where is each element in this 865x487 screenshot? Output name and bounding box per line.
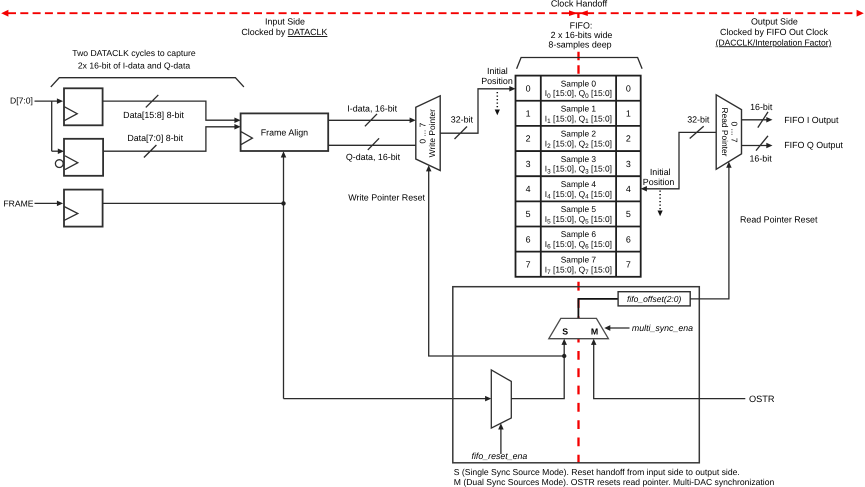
sync control box (453, 287, 700, 463)
S/M sync source mux (549, 318, 609, 338)
svg-text:FIFO I Output: FIFO I Output (784, 115, 839, 125)
junction FRAME node (281, 201, 285, 205)
slash 32-bit read bus (690, 126, 704, 138)
svg-text:I7 [15:0], Q7 [15:0]: I7 [15:0], Q7 [15:0] (545, 264, 612, 276)
svg-text:Data[15:8] 8-bit: Data[15:8] 8-bit (123, 110, 184, 120)
svg-text:fifo_reset_ena: fifo_reset_ena (472, 451, 528, 461)
svg-text:32-bit: 32-bit (687, 115, 710, 125)
pointer initial position read (dotted arrow) (659, 191, 661, 212)
svg-text:7: 7 (626, 259, 631, 269)
svg-text:6: 6 (626, 234, 631, 244)
svg-text:Clocked by DATACLK: Clocked by DATACLK (241, 27, 327, 37)
FIFO row 7 (526, 254, 631, 276)
svg-text:Initial: Initial (487, 66, 508, 76)
wire I-data to write pointer (328, 119, 411, 121)
svg-text:1: 1 (526, 109, 531, 119)
junction write-reset node (562, 354, 566, 358)
flip-flop FF2 (Data[7:0] capture, inverted clock) (64, 139, 103, 176)
FIFO row 6 (526, 229, 631, 251)
svg-text:6: 6 (526, 234, 531, 244)
svg-text:Sample 7: Sample 7 (561, 254, 597, 264)
svg-text:FIFO Q Output: FIFO Q Output (784, 140, 843, 150)
wire read initial position (645, 132, 716, 188)
wire write pointer reset (429, 170, 565, 357)
svg-text:OSTR: OSTR (749, 394, 775, 404)
write pointer mux (416, 96, 440, 171)
svg-text:2: 2 (526, 134, 531, 144)
wire FF2 to Frame Align (Data[7:0]) (103, 127, 236, 151)
svg-text:3: 3 (526, 159, 531, 169)
FIFO row 3 (526, 154, 631, 176)
svg-text:4: 4 (626, 184, 631, 194)
FIFO row 4 (526, 179, 631, 201)
brace over FIFO table (517, 58, 643, 69)
svg-text:S (Single Sync Source Mode). R: S (Single Sync Source Mode). Reset hando… (454, 467, 740, 477)
svg-text:Write Pointer: Write Pointer (427, 109, 437, 157)
svg-text:Data[7:0] 8-bit: Data[7:0] 8-bit (127, 133, 183, 143)
svg-text:16-bit: 16-bit (749, 153, 772, 163)
slash 32-bit write bus (455, 127, 468, 140)
wire FIFO Q output (742, 145, 769, 147)
wire multi_sync_ena (609, 327, 630, 329)
svg-text:Frame Align: Frame Align (261, 127, 308, 137)
svg-text:Sample 4: Sample 4 (561, 179, 597, 189)
wire FRAME to FF3 (35, 202, 60, 204)
frame-align U1 (241, 113, 329, 151)
svg-text:1: 1 (626, 109, 631, 119)
FIFO row 0 (526, 78, 631, 99)
flip-flop FF3 (FRAME capture) (64, 190, 103, 227)
wire S/M mux output to fifo_offset (578, 299, 618, 319)
handoff axis (red dashed vertical, upper segment) (577, 52, 579, 76)
flip-flop FF1 (Data[15:8] capture) (64, 88, 103, 125)
svg-text:fifo_offset(2:0): fifo_offset(2:0) (627, 294, 682, 304)
svg-text:5: 5 (526, 209, 531, 219)
svg-text:2x 16-bit of I-data and Q-data: 2x 16-bit of I-data and Q-data (78, 61, 190, 71)
wire D[7:0] to FF1 (35, 101, 61, 151)
svg-text:Write Pointer Reset: Write Pointer Reset (348, 193, 425, 203)
register fifo_offset(2:0) (618, 292, 690, 306)
FIFO table (516, 76, 641, 277)
wire read pointer reset (690, 166, 729, 299)
svg-text:D[7:0]: D[7:0] (10, 96, 33, 106)
svg-text:M (Dual Sync Sources Mode). OS: M (Dual Sync Sources Mode). OSTR resets … (454, 477, 775, 487)
svg-text:Sample 2: Sample 2 (561, 129, 597, 139)
svg-text:Clock Handoff: Clock Handoff (551, 0, 608, 9)
wire reset mux output to S input (511, 344, 564, 399)
svg-text:Sample 6: Sample 6 (561, 229, 597, 239)
svg-text:0 ... 7: 0 ... 7 (418, 122, 428, 143)
svg-text:Initial: Initial (650, 167, 671, 177)
svg-text:(DACCLK/Interpolation Factor): (DACCLK/Interpolation Factor) (716, 37, 832, 47)
svg-text:S: S (562, 327, 568, 337)
svg-text:Two DATACLK cycles to capture: Two DATACLK cycles to capture (72, 48, 196, 58)
slash I-data bus (365, 114, 377, 126)
svg-text:I0 [15:0], Q0 [15:0]: I0 [15:0], Q0 [15:0] (545, 88, 612, 100)
svg-text:Position: Position (481, 76, 513, 86)
svg-text:2 x 16-bits wide: 2 x 16-bits wide (551, 30, 613, 40)
svg-text:Read Pointer: Read Pointer (720, 108, 730, 157)
wire FRAME net to Frame Align and reset mux (103, 156, 488, 399)
svg-text:Read Pointer Reset: Read Pointer Reset (740, 215, 818, 225)
svg-text:2: 2 (626, 134, 631, 144)
svg-text:16-bit: 16-bit (750, 102, 773, 112)
svg-text:I-data, 16-bit: I-data, 16-bit (347, 104, 397, 114)
svg-text:Output Side: Output Side (751, 17, 798, 27)
slash Data[7:0] bus (144, 145, 157, 158)
FIFO row 1 (526, 103, 631, 125)
svg-text:FRAME: FRAME (3, 199, 33, 209)
svg-text:I6 [15:0], Q6 [15:0]: I6 [15:0], Q6 [15:0] (545, 239, 612, 251)
wire FF1 to Frame Align (Data[15:8]) (103, 101, 237, 120)
svg-text:M: M (591, 326, 598, 336)
slash Data[15:8] bus (146, 95, 159, 108)
svg-text:0 ... 7: 0 ... 7 (729, 122, 739, 143)
svg-text:I3 [15:0], Q3 [15:0]: I3 [15:0], Q3 [15:0] (545, 164, 612, 176)
svg-text:8-samples deep: 8-samples deep (548, 40, 611, 50)
svg-text:0: 0 (626, 83, 631, 93)
svg-text:I5 [15:0], Q5 [15:0]: I5 [15:0], Q5 [15:0] (545, 214, 612, 226)
wire OSTR to M input (594, 344, 746, 399)
svg-text:I2 [15:0], Q2 [15:0]: I2 [15:0], Q2 [15:0] (545, 139, 612, 151)
FIFO row 2 (526, 129, 631, 151)
svg-text:Clocked by FIFO Out Clock: Clocked by FIFO Out Clock (720, 27, 829, 37)
svg-text:FIFO:: FIFO: (570, 20, 593, 30)
svg-text:4: 4 (526, 184, 531, 194)
brace over input registers (51, 78, 244, 87)
svg-text:32-bit: 32-bit (451, 114, 474, 124)
FIFO row 5 (526, 204, 631, 226)
wire write pointer 32-bit to FIFO (440, 89, 511, 133)
pointer initial position write (dotted arrow) (496, 92, 498, 110)
svg-text:I1 [15:0], Q1 [15:0]: I1 [15:0], Q1 [15:0] (545, 113, 612, 125)
svg-text:Position: Position (643, 177, 675, 187)
svg-text:Sample 3: Sample 3 (561, 154, 597, 164)
svg-text:3: 3 (626, 159, 631, 169)
svg-text:Sample 1: Sample 1 (561, 103, 597, 113)
svg-text:Sample 5: Sample 5 (561, 204, 597, 214)
svg-text:Q-data, 16-bit: Q-data, 16-bit (346, 152, 401, 162)
wire FIFO I output (742, 119, 769, 121)
svg-text:7: 7 (526, 259, 531, 269)
mux fifo_reset_ena (491, 370, 511, 428)
svg-text:Sample 0: Sample 0 (561, 78, 597, 88)
slash Q-data bus (368, 138, 379, 150)
svg-text:0: 0 (526, 83, 531, 93)
svg-text:5: 5 (626, 209, 631, 219)
read pointer mux (716, 95, 741, 170)
svg-text:multi_sync_ena: multi_sync_ena (632, 323, 693, 333)
svg-text:Input Side: Input Side (265, 17, 305, 27)
wire Q-data to write pointer (328, 144, 416, 146)
svg-text:I4 [15:0], Q4 [15:0]: I4 [15:0], Q4 [15:0] (545, 189, 612, 201)
wire fifo_reset_ena control (500, 429, 502, 455)
slash Q output bus (756, 136, 768, 151)
handoff axis (red dashed vertical, lower segment) (577, 282, 579, 463)
clock handoff boundary (red dashed horizontal) (1, 10, 864, 18)
slash I output bus (758, 112, 768, 128)
